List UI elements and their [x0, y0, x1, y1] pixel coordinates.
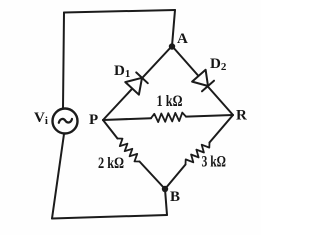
resistor 2 kohm zigzag [118, 139, 140, 162]
svg-text:P: P [89, 112, 98, 128]
svg-text:R: R [236, 108, 247, 124]
svg-text:2 kΩ: 2 kΩ [98, 155, 124, 172]
svg-text:B: B [170, 189, 180, 205]
diode D2 (points from A toward R) [192, 70, 214, 92]
svg-text:1 kΩ: 1 kΩ [157, 93, 183, 110]
resistor 1 kohm zigzag [151, 113, 186, 123]
wire 3 kohm resistor upper lead to R [210, 115, 234, 143]
wire riser bottom rail to node B [165, 189, 167, 215]
svg-text:D1: D1 [114, 63, 130, 80]
wire source bottom to bottom-left corner [52, 134, 64, 219]
wire branch A to P (diode D1 branch) [103, 46, 172, 120]
svg-text:3 kΩ: 3 kΩ [202, 154, 227, 171]
svg-text:D2: D2 [210, 56, 227, 73]
node A (junction dot) [169, 43, 175, 49]
resistor 3 kohm zigzag [186, 143, 210, 165]
wire top rail [64, 10, 175, 13]
wire P to 2 kohm resistor upper lead [103, 120, 118, 139]
svg-text:A: A [177, 31, 188, 47]
wire B to 3 kohm resistor lower lead [165, 165, 186, 190]
wire left side (top rail to source top) [63, 13, 64, 109]
wire branch A to R (diode D2 branch) [172, 46, 233, 115]
node B (junction dot) [162, 186, 168, 192]
diode D1 (points from P toward A) [125, 72, 148, 94]
source Vi (AC) [53, 109, 78, 134]
wire bottom rail [52, 215, 167, 219]
wire 2 kohm resistor lower lead to B [140, 162, 166, 190]
wire right drop (top rail to node A) [172, 10, 175, 46]
svg-text:Vi: Vi [34, 110, 48, 127]
wire 1 kohm resistor right lead to R [186, 115, 233, 117]
wire P to 1 kohm resistor left lead [103, 118, 151, 120]
